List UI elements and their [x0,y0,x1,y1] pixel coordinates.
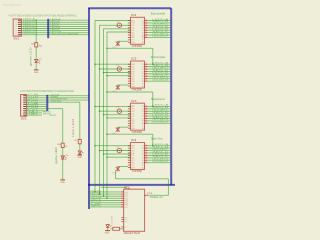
IC IC2 74HC595 [131,61,145,88]
bus B1 [47,19,49,38]
svg-text:74HC595N: 74HC595N [132,170,143,173]
svg-text:IC4: IC4 [131,139,137,142]
wire net RCLK to IC2 [100,68,131,70]
connector SV2 pin 2 [23,97,26,99]
junction IC4 tap 2 [99,150,101,152]
svg-text:74HC595N: 74HC595N [132,131,143,134]
svg-text:Zehnerstelle: Zehnerstelle [151,56,166,59]
wire net PWR from SV2 pin 6 [27,105,48,107]
IC1 left pin stub 1 [128,20,131,22]
capacitor C3 (circle symbol) [117,109,121,113]
wire net SRCLK to IC1 [95,20,131,22]
svg-text:IC3: IC3 [131,100,137,103]
svg-text:LED5-SEG-DP: LED5-SEG-DP [152,122,169,124]
junction serial IC2 [106,91,108,93]
wire serial out IC3 to IC4 [107,133,153,135]
svg-text:IC1: IC1 [131,14,137,17]
wire IC3 output SEG-DP to bus [148,122,171,124]
IC3 output pin stub 1 [145,105,148,107]
svg-text:10: 10 [21,115,23,117]
IC IC4 74HC595 [131,143,145,170]
resistor R7 [78,139,81,143]
IC5 pin stub row 3 [121,195,124,197]
connector SV1 pin 5 [18,27,21,29]
IC IC3 74HC595 [131,103,145,130]
IC4 output pin stub 8 [145,162,148,164]
wire IC1 output SEG-F to bus [148,32,171,34]
wire net OE to IC4 [104,153,131,155]
junction serial IC3 [106,133,108,135]
IC4 left pin stub 7 [128,159,131,161]
wire net LED5-DIG1 from bus to IC5 [90,191,121,193]
IC2 output pin stub 7 [145,78,148,80]
wire IC2 output SEG-D to bus [148,70,171,72]
IC4 left pin stub 9 [128,164,131,166]
wire net LED5-DIG4 from bus to IC5 [90,197,121,199]
wire IC3 output SEG-G to bus [148,120,171,122]
wire IC2 pin to LED star [118,84,128,86]
IC4 left pin stub 10 [128,166,131,168]
wire serial out IC1 to IC2 [107,47,153,49]
connector SV1 pin 7 [18,32,21,34]
wire IC3 output SEG-D to bus [148,113,171,115]
wire net SER to IC3 [107,117,131,119]
wire IC2 output SEG-C to bus [148,68,171,70]
IC2 left pin stub 3 [128,68,131,70]
svg-text:IC2: IC2 [131,58,137,61]
IC1 output pin stub 1 [145,20,148,22]
junction IC3 tap 4 [106,117,108,119]
connector SV1 pin 1 [18,19,21,21]
IC5 left pin stub [121,226,123,228]
IC3 left pin stub 7 [128,120,131,122]
IC3 output pin stub 3 [145,110,148,112]
junction IC4 tap 3 [103,153,105,155]
svg-text:6: 6 [142,86,144,88]
IC2 left pin stub 1 [128,63,131,65]
wire IC3 output SEG-C to bus [148,110,171,112]
ground GND4 [105,230,110,232]
svg-text:SER: SER [91,205,103,207]
wire net PWM from SV2 pin 7 [27,108,63,110]
IC1 output pin stub 5 [145,29,148,31]
svg-text:MEGA8-P DIL28: MEGA8-P DIL28 [124,232,141,235]
IC4 output pin stub 7 [145,159,148,161]
connector SV2 pin 3 [23,99,26,101]
wire net SER vertical [106,32,108,198]
wire IC4 output SEG-D to bus [148,152,171,154]
IC4 output pin stub 3 [145,150,148,152]
ground GND1 [34,69,39,71]
IC4 left pin stub 5 [128,154,131,156]
svg-text:8: 8 [15,35,17,37]
svg-text:SV1: SV1 [13,38,19,41]
wire net RCLK vertical [99,25,101,194]
wire IC4 pin to LED star [118,166,128,168]
IC5 left pin stub [121,216,123,218]
svg-text:05.02.2022 21:13: 05.02.2022 21:13 [3,5,22,7]
wire net LED5-E from SV1 pin 5 to bus [21,27,89,29]
wire net LED5-DP from SV1 pin 8 to bus [21,34,89,36]
wire net CS from SV2 pin 1 [27,95,89,97]
IC2 left pin stub 10 [128,85,131,87]
wire net TA2 from SV2 pin 9 [27,112,42,114]
svg-text:Hunderterst.: Hunderterst. [151,98,166,101]
junction IC3 tap 3 [103,114,105,116]
svg-text:C1: C1 [116,21,119,23]
wire IC1 output SEG-DP to bus [148,36,171,38]
IC2 output pin stub 4 [145,70,148,72]
wire R5 to LED D5 [35,47,37,59]
IC4 output pin stub 6 [145,157,148,159]
svg-text:6: 6 [142,128,144,130]
resistor R6 [61,143,64,147]
IC2 output pin stub 6 [145,75,148,77]
IC1 left pin stub 4 [128,27,131,29]
IC1 left pin stub 9 [128,39,131,41]
bus B2 [46,95,48,111]
connector SV1 pin 2 [18,21,21,23]
IC5 left pin stub [121,221,123,223]
connector SV2 pin 5 [23,103,26,105]
svg-text:VCC AVCC: VCC AVCC [124,184,134,187]
wire net RCLK to IC1 [100,24,131,26]
junction IC4 tap 1 [94,145,96,147]
connector SV2 pin 9 [23,112,26,114]
wire IC3 output SEG-A to bus [148,105,171,107]
IC2 output pin stub 3 [145,68,148,70]
connector SV2 pin 6 [23,105,26,107]
wire IC4 output SEG-DP to bus [148,162,171,164]
wire IC1 output SEG-E to bus [148,29,171,31]
junction on net LED5-A [35,19,37,21]
IC3 left pin stub 9 [128,125,131,127]
svg-text:PB7: PB7 [124,207,128,209]
IC1 left pin stub 6 [128,32,131,34]
wire R6 to LED D6 [62,148,64,156]
IC3 left pin stub 6 [128,118,131,120]
svg-text:GND: GND [112,172,118,174]
IC5 top pin stub [128,188,130,190]
junction IC5 row 3 [103,195,105,197]
connector SV2 [21,95,27,117]
connector SV2 pin 4 [23,101,26,103]
ground GND2 [60,179,65,181]
wire IC1 output SEG-D to bus [148,27,171,29]
wire net DATAIN from IC4 serial out [115,171,117,179]
svg-text:rote LED: rote LED [111,215,114,226]
IC3 output pin stub 2 [145,108,148,110]
wire net SRCLK to IC2 [95,63,131,65]
IC4 left pin stub 1 [128,145,131,147]
capacitor C4 (circle symbol) [117,148,121,152]
wire net OE from bus to IC5 [90,204,121,206]
svg-text:8: 8 [145,161,147,163]
IC IC1 74HC595 [131,17,145,44]
svg-text:74HC595N: 74HC595N [132,45,143,48]
IC3 left pin stub 5 [128,115,131,117]
IC3 left pin stub 3 [128,110,131,112]
wire LED D5 to ground [35,63,37,70]
IC3 output pin stub 4 [145,113,148,115]
IC5 pin stub row 8 [121,206,124,208]
wire net ZC from SV2 pin 3 [27,99,89,101]
connector SV1 pin 4 [18,25,21,27]
wire net OE to IC2 [104,72,131,74]
connector SV2 pin 10 [23,114,26,116]
svg-text:74HC595N: 74HC595N [132,89,143,92]
wire IC2 output SEG-G to bus [148,78,171,80]
IC2 left pin stub 9 [128,83,131,85]
wire IC3 pin to LED star [118,126,128,128]
LED D13 (star symbol) [116,127,120,132]
IC2 left pin stub 4 [128,70,131,72]
IC1 left pin stub 10 [128,41,131,43]
wire IC2 output SEG-B to bus [148,66,171,68]
IC2 output pin stub 5 [145,73,148,75]
wire net TA1 from SV2 pin 10 [27,114,42,116]
wire IC1 output SEG-B to bus [148,22,171,24]
wire net LED5-DIG3 from bus to IC5 [90,195,121,197]
IC4 output pin stub 2 [145,147,148,149]
resistor R8 [113,227,120,230]
wire net SRCLK from bus to IC5 [90,200,121,202]
wire net LED5-G from SV1 pin 7 to bus [21,32,89,34]
svg-text:GND: GND [60,182,65,184]
IC4 left pin stub 2 [128,147,131,149]
svg-text:SV2: SV2 [21,118,27,121]
wire net RCLK to IC3 [100,110,131,112]
wire IC1 pin to LED star [118,40,128,42]
svg-text:GND: GND [105,233,110,235]
svg-text:GND: GND [77,157,82,159]
IC3 left pin stub 4 [128,113,131,115]
IC4 left pin stub 6 [128,157,131,159]
wire net PWR down to R7 [79,102,81,139]
connector SV1 pin 8 [18,34,21,36]
connector SV1 pin 3 [18,23,21,25]
wire IC2 output SEG-A to bus [148,63,171,65]
IC1 output pin stub 2 [145,22,148,24]
wire net LED5-F from SV1 pin 6 to bus [21,30,89,32]
wire IC2 output SEG-F to bus [148,75,171,77]
bus segment right vertical [170,8,172,185]
IC1 left pin stub 7 [128,34,131,36]
wire LED D6 to ground [62,159,64,180]
wire net SRCLK to IC4 [95,145,131,147]
junction IC5 row 4 [106,198,108,200]
junction IC3 tap 1 [94,106,96,108]
svg-text:C4: C4 [116,147,119,149]
junction IC2 tap 2 [99,68,101,70]
wire IC4 output SEG-G to bus [148,159,171,161]
bus segment top horizontal [88,7,171,9]
LED D6 [61,156,64,159]
wire IC4 output SEG-A to bus [148,145,171,147]
LED D7 [78,151,81,154]
wire serial out IC2 to IC3 [107,91,153,93]
connector SV2 pin 1 [23,95,26,97]
wire IC3 output SEG-B to bus [148,108,171,110]
svg-text:8: 8 [145,122,147,124]
IC3 left pin stub 2 [128,108,131,110]
wire net SER to IC4 [107,156,131,158]
IC5 pin stub row 1 [121,191,124,193]
wire R8 to LED D8 [110,228,112,230]
wire net SRCLK vertical [94,21,96,192]
IC5 right pin stub [145,194,148,196]
svg-text:C2: C2 [116,65,119,67]
microcontroller IC5 [124,189,145,231]
wire net RCLK from bus to IC5 [90,202,121,204]
IC1 output pin stub 4 [145,27,148,29]
wire IC2 output SEG-E to bus [148,73,171,75]
IC1 output pin stub 8 [145,36,148,38]
IC1 left pin stub 2 [128,22,131,24]
svg-text:LED5-SEG-DP: LED5-SEG-DP [152,79,169,81]
IC3 output pin stub 6 [145,118,148,120]
svg-text:4-CS/TUR/ZC/PWR/DA/PWR/PWM/DST: 4-CS/TUR/ZC/PWR/DA/PWR/PWM/DST-STEUERLEI… [20,90,74,93]
svg-text:C3: C3 [116,107,119,109]
wire net SER from bus to IC5 [90,206,121,208]
IC4 left pin stub 8 [128,162,131,164]
bus segment bottom horizontal [88,184,175,186]
wire net DA from SV2 pin 5 [27,103,48,105]
wire IC4 output SEG-E to bus [148,154,171,156]
IC3 output pin stub 5 [145,115,148,117]
IC1 left pin stub 5 [128,29,131,31]
IC2 output pin stub 2 [145,66,148,68]
LED D12 (star symbol) [116,85,120,90]
IC1 left pin stub 8 [128,36,131,38]
wire R8 to IC5 [120,228,124,230]
wire IC1 output SEG-A to bus [148,20,171,22]
wire net LED5-B from SV1 pin 2 to bus [21,21,89,23]
svg-text:Data In: Data In [150,196,164,199]
wire junction down to R5 [35,20,37,43]
wire net PWM down to R6 [62,109,64,144]
svg-text:ZUENDUNG: ZUENDUNG [50,101,61,103]
IC4 output pin stub 5 [145,154,148,156]
svg-text:LED5-SEG-DP-ANZEIGE: LED5-SEG-DP-ANZEIGE [50,32,79,35]
svg-text:Daten Out: Daten Out [151,138,163,141]
junction IC5 row 1 [94,191,96,193]
wire net LED5-DIG2 from bus to IC5 [90,193,121,195]
wire net LED5-D from SV1 pin 4 to bus [21,25,89,27]
junction IC5 row 2 [99,193,101,195]
LED D8 [106,225,109,228]
svg-text:rote LED: rote LED [72,118,75,137]
IC2 output pin stub 8 [145,80,148,82]
IC1 left pin stub 3 [128,24,131,26]
resistor R5 [35,43,38,47]
wire net OE to IC3 [104,114,131,116]
IC5 pin stub row 4 [121,197,124,199]
wire net LED5-C from SV1 pin 3 to bus [21,23,89,25]
svg-text:6: 6 [142,42,144,44]
IC5 pin stub row 2 [121,193,124,195]
IC3 left pin stub 8 [128,122,131,124]
IC2 left pin stub 7 [128,78,131,80]
svg-text:4-DIGIT-7SEG-ANZEIGE-LED-DISPL: 4-DIGIT-7SEG-ANZEIGE-LED-DISPLAY-ROT-GEM… [9,14,78,17]
IC4 left pin stub 3 [128,150,131,152]
ground GND3 [77,154,82,156]
wire net OE to IC1 [104,28,131,30]
IC3 output pin stub 8 [145,122,148,124]
junction IC3 tap 2 [99,110,101,112]
IC2 output pin stub 1 [145,63,148,65]
wire net TUR from SV2 pin 2 [27,97,89,99]
IC2 left pin stub 2 [128,66,131,68]
IC3 left pin stub 10 [128,127,131,129]
bus segment left vertical [88,8,90,209]
wire R7 to LED D7 [79,144,81,151]
IC4 output pin stub 1 [145,145,148,147]
connector SV1 [13,19,21,36]
wire IC4 output SEG-B to bus [148,147,171,149]
svg-text:GND: GND [34,72,39,74]
wire net SER to IC2 [107,75,131,77]
connector SV2 pin 7 [23,108,26,110]
IC5 pin stub row 6 [121,202,124,204]
wire net DST from SV2 pin 8 [27,110,48,112]
svg-text:LED5-SEG-DP: LED5-SEG-DP [152,161,169,163]
IC3 left pin stub 1 [128,105,131,107]
svg-text:8: 8 [145,36,147,38]
wire IC4 output SEG-F to bus [148,157,171,159]
wire LED D8 to ground [107,228,109,231]
wire net PWR from SV2 pin 4 [27,101,80,103]
connector SV2 pin 8 [23,110,26,112]
LED D14 (star symbol) [116,166,120,171]
IC2 left pin stub 6 [128,75,131,77]
svg-text:6: 6 [142,167,144,169]
IC5 left pin stub [121,218,123,220]
wire IC4 output SEG-C to bus [148,150,171,152]
wire IC1 output SEG-G to bus [148,34,171,36]
IC1 output pin stub 3 [145,24,148,26]
junction IC4 tap 4 [106,156,108,158]
wire net SRCLK to IC3 [95,105,131,107]
svg-text:LED5-SEG-DP: LED5-SEG-DP [152,36,169,38]
junction IC2 tap 4 [106,75,108,77]
wire IC3 output SEG-F to bus [148,118,171,120]
IC4 output pin stub 4 [145,152,148,154]
IC4 left pin stub 4 [128,152,131,154]
svg-text:Einerstelle: Einerstelle [151,12,166,15]
IC1 output pin stub 7 [145,34,148,36]
junction IC2 tap 1 [94,63,96,65]
wire net OE vertical [103,29,105,196]
svg-text:gelbe LED: gelbe LED [56,147,58,164]
wire net LED5-A from SV1 pin 1 to bus [21,19,89,21]
LED D5 [35,59,38,62]
svg-text:LED5-DP: LED5-DP [23,33,36,35]
wire net RCLK to IC4 [100,150,131,152]
wire IC1 output SEG-C to bus [148,24,171,26]
capacitor C1 (circle symbol) [117,23,121,27]
svg-text:8: 8 [145,80,147,82]
wire net SER to IC1 [107,31,131,33]
junction serial IC1 [106,48,108,50]
junction IC2 tap 3 [103,72,105,74]
IC2 left pin stub 8 [128,80,131,82]
wire IC2 output SEG-DP to bus [148,80,171,82]
svg-text:grüne LED: grüne LED [30,47,33,66]
wire VCC to IC5 top [101,186,126,188]
IC3 output pin stub 7 [145,120,148,122]
svg-text:TASTER1: TASTER1 [49,114,57,117]
